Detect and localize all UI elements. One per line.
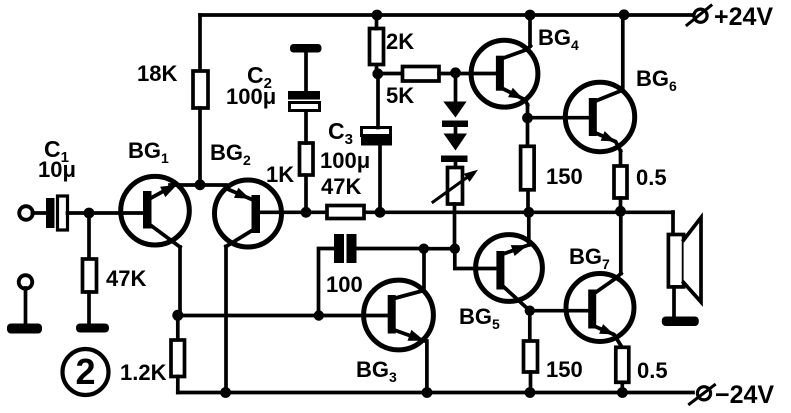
svg-text:100μ: 100μ <box>320 148 370 173</box>
wire BG6 collector to rail <box>621 15 625 91</box>
svg-text:−24V: −24V <box>715 381 774 409</box>
label 47K shunt <box>106 266 146 291</box>
wire emitter link BG1-BG2 <box>170 183 226 187</box>
node 2K top junction <box>372 10 383 21</box>
node main line BG4/BG5 junction <box>523 207 534 218</box>
diode D2 <box>441 134 468 163</box>
wire 18K branch from rail <box>198 15 202 71</box>
wire 18K to BG1 emitter node <box>198 108 202 185</box>
wire 100 cap left lead elbow <box>319 249 335 316</box>
resistor 47K series <box>327 206 364 219</box>
svg-text:1.2K: 1.2K <box>120 360 167 385</box>
wire 2K branch <box>375 64 379 74</box>
terminal +24V <box>687 6 711 26</box>
label 10u <box>38 157 76 182</box>
wire BG4 collector to rail <box>528 15 532 46</box>
resistor 0.5 lower <box>616 347 629 382</box>
label C1 <box>44 136 69 166</box>
wire BG5 emitter up to main line <box>527 212 531 245</box>
node BG4 emitter junction <box>522 113 533 124</box>
ground under input terminal <box>7 324 42 334</box>
label 100u C2 <box>226 84 276 109</box>
label BG1 <box>128 138 169 166</box>
svg-text:0.5: 0.5 <box>637 358 668 383</box>
svg-text:2: 2 <box>75 351 95 392</box>
node BG6 collector junction <box>619 9 630 20</box>
wire 0.5 lower to bottom rail <box>620 382 624 392</box>
node output junction <box>615 206 626 217</box>
wire BG8 emitter to bottom rail <box>425 341 429 393</box>
node feedback line junction <box>314 310 324 320</box>
ground under speaker <box>662 317 699 327</box>
wire 1K to C2 <box>304 110 308 143</box>
svg-text:150: 150 <box>546 357 583 382</box>
resistor 150 upper <box>521 146 535 190</box>
transistor BG8 <box>364 280 434 350</box>
wire BG2 collector to bottom rail <box>224 247 228 393</box>
speaker <box>668 218 701 303</box>
transistor BG6 <box>565 82 634 151</box>
wire 5K to BG4 base <box>439 72 496 76</box>
wire junction to 5K <box>378 72 403 76</box>
label 150 upper <box>546 164 583 189</box>
node 1.2K junction <box>172 310 183 321</box>
label circled 2 <box>63 349 109 395</box>
node BG5 collector junction <box>525 306 535 316</box>
terminal input ground side <box>19 275 33 289</box>
wire BG8 collector up <box>422 249 426 291</box>
capacitor C1 plate+ <box>46 198 55 228</box>
svg-text:100μ: 100μ <box>226 84 276 109</box>
wire BG1 collector down <box>178 247 180 316</box>
label 5K <box>386 83 414 108</box>
wire output to speaker <box>671 212 675 235</box>
node BG1/BG2 emitter junction <box>195 179 206 190</box>
wire BG6 emitter to 0.5 <box>619 151 623 166</box>
resistor 2K <box>370 29 384 65</box>
ground above C2 <box>290 44 322 53</box>
label BG2 <box>210 140 251 168</box>
wire to 47K shunt <box>87 213 91 259</box>
wire feedback line <box>178 314 388 318</box>
wire +24V top rail <box>200 13 692 17</box>
capacitor C2 plate- <box>290 103 320 111</box>
label 100 <box>326 272 363 297</box>
wire BG5 collector to BG7 base <box>530 309 588 313</box>
wire C1 to BG1 base <box>68 211 144 215</box>
wire BG4 emitter to BG6 base <box>528 116 589 120</box>
wire to 1.2K <box>176 316 180 341</box>
wire 2K to rail <box>375 15 379 29</box>
label 150 lower <box>546 357 583 382</box>
node BG4 collector junction <box>525 10 536 21</box>
label BG6 <box>636 66 677 94</box>
resistor 150 lower <box>524 341 538 372</box>
resistor 18K <box>193 71 208 108</box>
node 0.5 rail junction <box>617 387 628 398</box>
label 2K <box>386 29 414 54</box>
resistor 47K shunt <box>83 259 97 292</box>
label 0.5 lower <box>637 358 668 383</box>
wire BG4 emitter down <box>526 105 530 146</box>
resistor 5K <box>403 67 440 82</box>
label BG8 <box>356 357 397 385</box>
wire junction to 100 cap node <box>424 247 455 251</box>
wire junction elbow to BG5 base <box>455 249 497 269</box>
capacitor C2 plate+ <box>288 91 320 100</box>
wire -24V bottom rail <box>178 391 693 395</box>
node BG2 collector rail junction <box>220 387 231 398</box>
transistor BG2 <box>215 180 282 247</box>
label BG4 <box>538 25 579 53</box>
label 100u C3 <box>320 148 370 173</box>
svg-text:+24V: +24V <box>714 3 773 31</box>
wire 0.5 upper to main line <box>619 198 623 212</box>
wire terminal to ground <box>24 288 28 324</box>
label -24V <box>715 381 774 409</box>
resistor 1.2K <box>171 340 185 377</box>
wire 47K to ground <box>87 292 91 324</box>
transistor BG5 <box>476 235 543 311</box>
wire C3 bottom branch <box>378 145 382 212</box>
svg-text:100: 100 <box>326 272 363 297</box>
svg-text:47K: 47K <box>321 174 361 199</box>
ground under 47K <box>76 324 109 333</box>
wire 1.2K to bottom rail <box>176 377 180 393</box>
node 150 rail junction <box>525 387 536 398</box>
svg-text:10μ: 10μ <box>38 157 76 182</box>
capacitor C3 plate+ <box>361 137 392 146</box>
svg-text:1K: 1K <box>266 162 294 187</box>
node 1K junction <box>301 207 312 218</box>
label 1K <box>266 162 294 187</box>
node BG8 emitter rail junction <box>422 387 433 398</box>
terminal input <box>19 206 33 220</box>
label 1.2K <box>120 360 167 385</box>
variable resistor <box>433 168 478 205</box>
svg-text:2K: 2K <box>386 29 414 54</box>
resistor 0.5 upper <box>614 166 627 198</box>
node C3 junction <box>375 207 386 218</box>
terminal -24V <box>690 385 715 404</box>
wire speaker to ground <box>672 287 676 317</box>
wire 1K branch <box>304 175 308 212</box>
node BG5 base junction <box>450 244 460 254</box>
node diode chain junction <box>450 67 461 78</box>
capacitor C1 plate- <box>58 196 68 230</box>
wire 150 lower to bottom rail <box>529 372 533 393</box>
svg-text:5K: 5K <box>386 83 414 108</box>
label 0.5 upper <box>636 165 667 190</box>
wire to diode D1 <box>454 77 458 102</box>
label 47K series <box>321 174 361 199</box>
node input/47K junction <box>84 208 95 219</box>
wire D2 to variable resistor <box>454 162 458 168</box>
diode D1 <box>442 102 468 128</box>
wire BG7 collector up to output <box>619 212 623 274</box>
transistor BG4 <box>471 40 538 107</box>
capacitor C3 plate- <box>362 128 391 136</box>
wire 150 upper to main line <box>526 190 530 212</box>
wire input to C1 <box>33 211 47 215</box>
label 18K <box>137 61 177 86</box>
label C2 <box>247 62 272 92</box>
resistor 1K <box>300 143 314 175</box>
wire BG5 collector down <box>528 311 532 341</box>
transistor BG1 <box>121 176 190 247</box>
svg-text:150: 150 <box>546 164 583 189</box>
transistor BG7 <box>566 274 634 348</box>
wire C2 to ground <box>304 52 308 91</box>
svg-text:0.5: 0.5 <box>636 165 667 190</box>
label +24V <box>714 3 773 31</box>
wire main output line <box>260 210 674 214</box>
label BG7 <box>569 244 610 272</box>
capacitor 100 <box>334 234 357 263</box>
wire C3 top branch <box>376 74 380 128</box>
svg-text:18K: 18K <box>137 61 177 86</box>
svg-text:47K: 47K <box>106 266 146 291</box>
node 2K bottom junction <box>372 68 383 79</box>
node 100 cap right junction <box>419 244 429 254</box>
wire D1 to D2 <box>454 127 458 134</box>
wire variable resistor down <box>453 204 457 249</box>
wire 100 cap right lead <box>357 247 424 251</box>
label C3 <box>328 118 353 148</box>
label BG5 <box>459 304 500 332</box>
